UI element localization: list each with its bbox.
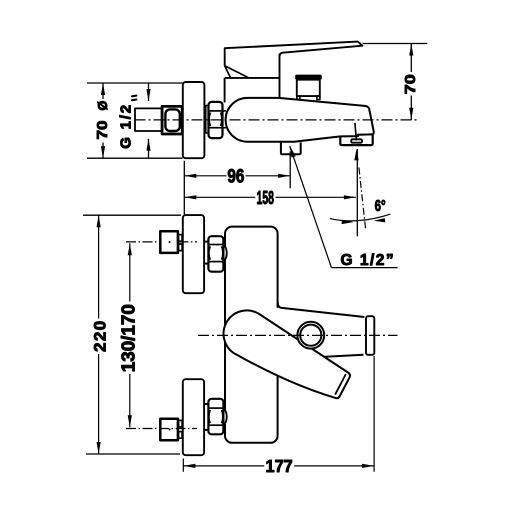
knob feet (top view): [297, 96, 320, 99]
dimension 220: [98, 215, 100, 454]
check valve housing (top view): [281, 142, 301, 154]
dimension 70 Ø left: [102, 83, 104, 158]
centerline top view: [135, 119, 418, 121]
svg-text:220: 220: [91, 319, 110, 352]
svg-text:70: 70: [94, 121, 111, 140]
lever handle (top view): [225, 42, 363, 78]
extension lines left (Ø70): [87, 83, 183, 158]
svg-text:177: 177: [266, 456, 293, 476]
angle arc 6deg: [330, 214, 391, 221]
svg-text:Ø: Ø: [96, 101, 110, 111]
nipple centerline bottom: [126, 428, 197, 430]
svg-text:96: 96: [227, 166, 244, 187]
svg-text:70: 70: [402, 74, 419, 94]
bottom hex nut (bottom view): [208, 399, 226, 435]
underline G 1/2: [331, 267, 397, 269]
tick 177 left: [182, 459, 184, 472]
leader G 1/2 to check valve: [290, 146, 332, 268]
extension line right 70: [363, 43, 428, 45]
aerator housing (top view): [340, 134, 372, 145]
nipple centerline top: [126, 241, 197, 243]
dimension 130/170: [129, 243, 131, 427]
top flange (bottom view): [183, 215, 204, 293]
centerline bottom view: [198, 334, 398, 336]
dimension 158: [184, 196, 356, 198]
spout (top view): [279, 98, 374, 136]
mixer body bar (bottom view): [225, 227, 278, 443]
neck flange-to-nut (top view): [206, 106, 208, 134]
6 degree axis dash-dot: [359, 168, 366, 230]
svg-text:G 1/2”: G 1/2”: [341, 252, 396, 269]
cartridge collar (top view): [225, 78, 280, 103]
dimension 96: [184, 175, 290, 177]
svg-text:G 1/2: G 1/2: [117, 103, 134, 149]
leader line vertical from aerator: [356, 149, 358, 236]
top hex nut (bottom view): [208, 236, 226, 272]
dimension G 1/2" left: [148, 83, 150, 158]
dimension 70 right: [410, 44, 412, 120]
valve capsule top edge (bottom view): [278, 303, 365, 318]
hex nut (top view): [209, 102, 223, 138]
hood front edge (top view): [279, 54, 281, 98]
bottom nipple (bottom view): [160, 419, 182, 441]
top nipple (bottom view): [160, 231, 182, 253]
extension lines 220: [83, 215, 181, 454]
lever handle (bottom view): [224, 310, 350, 398]
diverter knob body (top view): [297, 80, 320, 96]
valve capsule bottom edge (bottom view): [318, 355, 364, 357]
spout axis line solid: [355, 123, 357, 141]
dimension 177: [183, 465, 374, 467]
diverter knob cap black (top view): [295, 75, 322, 80]
wall nipple pipe G1/2 (top view): [135, 108, 163, 131]
svg-text:130/170: 130/170: [117, 304, 138, 372]
svg-text:158: 158: [257, 188, 275, 208]
extension line 96 right: [289, 152, 291, 189]
extension 177 right: [373, 356, 375, 472]
wall flange escutcheon (top view): [183, 82, 205, 158]
extension line x184 between views: [183, 161, 185, 215]
diverter knob circle (bottom view): [297, 322, 324, 349]
mixer body capsule (top view): [226, 98, 341, 142]
neck top union: [204, 242, 208, 264]
svg-text:6°: 6°: [375, 198, 386, 215]
bottom flange (bottom view): [183, 379, 204, 455]
neck bottom union: [204, 404, 208, 430]
neck nut-to-body (top view): [223, 111, 226, 128]
union nut bold (top view): [162, 106, 182, 134]
spout outlet cap (bottom view): [366, 316, 374, 355]
valve capsule white fill (bottom view): [246, 308, 364, 358]
